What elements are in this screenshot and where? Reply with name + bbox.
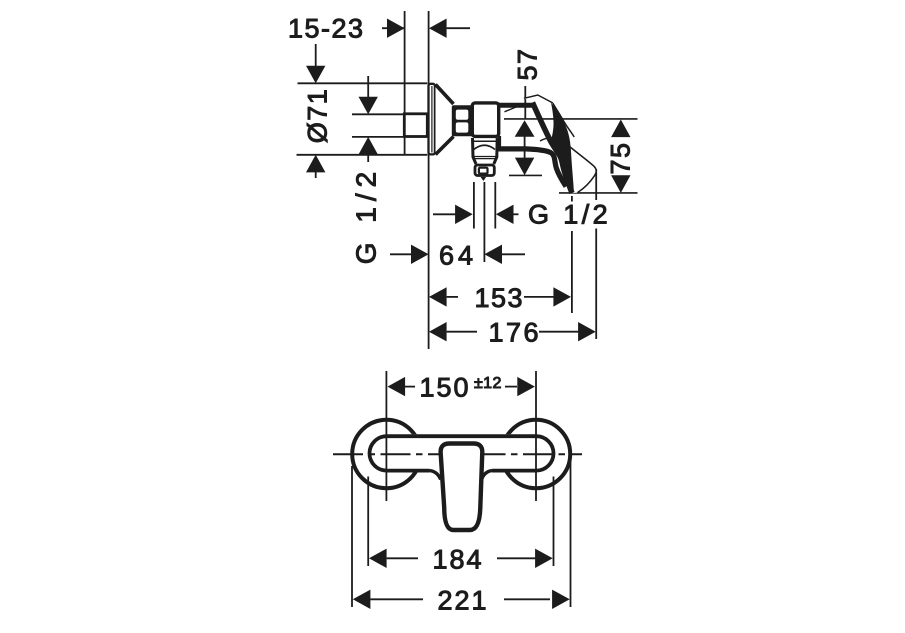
handle rear tip outline [524, 95, 553, 103]
dimension 221 arrow left-pointing [353, 590, 371, 609]
dimension G1/2 supply upper arrow down-pointing [359, 97, 378, 115]
dimension 57 line [524, 136, 526, 159]
outlet ring line [474, 140, 497, 142]
horizontal centerline dashed [333, 453, 582, 455]
supply pipe stub [404, 114, 427, 137]
dimension 221 arrow right-pointing [552, 590, 570, 609]
extension line circle left x=352 [351, 466, 353, 607]
extension line wall-front x=404.6 [404, 11, 406, 155]
handle blade back solid mass [551, 103, 574, 194]
svg-text:G 1/2: G 1/2 [351, 166, 382, 264]
handle base bottom bar with curve [498, 149, 566, 187]
outlet neck right side [494, 138, 497, 164]
dimension O71 upper arrow tail [315, 44, 317, 70]
dimension 75 lower arrow down-pointing [611, 175, 630, 193]
dimension 64 arrow right-pointing [411, 245, 429, 264]
dimension G1/2 supply lower arrow tail [367, 152, 369, 162]
handle base top bar [498, 103, 535, 108]
escutcheon plate [429, 84, 435, 155]
dimension O71 bottom reference line [297, 154, 428, 156]
handle blade far edge lower with end hook [567, 145, 596, 193]
dimension 57 line upper tail [524, 86, 526, 120]
dimension 64 left tail [390, 253, 412, 255]
dimension 184 arrow right-pointing [535, 549, 553, 568]
svg-text:±12: ±12 [474, 375, 502, 392]
dimension 153 arrow left-pointing [429, 287, 447, 306]
svg-text:Ø71: Ø71 [303, 88, 333, 144]
union nut upper window [456, 110, 469, 120]
label G1/2 outlet arrow left-pointing [496, 205, 514, 224]
dimension 57 upper arrow up-pointing [515, 120, 535, 137]
dimension 75 upper arrow up-pointing [611, 120, 630, 138]
extension line bar right x=553.5 [553, 477, 555, 567]
escutcheon plate inner line [431, 86, 433, 153]
outlet dome arc [474, 145, 495, 149]
svg-text:64: 64 [439, 241, 477, 271]
dimension 15-23 line left tail [382, 27, 405, 29]
dimension 15-23 line right tail [447, 27, 470, 29]
right junction fillet [482, 471, 492, 480]
dimension 176 left tail [447, 331, 477, 333]
handle blade front edge thick [533, 103, 573, 194]
dimension O71 lower arrow up-pointing [306, 155, 325, 173]
union nut lower window [456, 122, 469, 132]
body bar fill [387, 434, 537, 472]
outlet thread opening [479, 168, 488, 174]
svg-text:G 1/2: G 1/2 [528, 200, 611, 230]
dimension 57 lower arrow down-pointing [515, 158, 534, 176]
handle silhouette [524, 95, 596, 193]
svg-text:15-23: 15-23 [288, 14, 365, 44]
extension line bar left x=368.2 [367, 477, 369, 567]
outlet lower ring line 2 [474, 158, 496, 160]
extension line outlet right x=495.3 [494, 182, 496, 229]
cartridge cap lower edge detail [505, 105, 523, 112]
svg-text:176: 176 [489, 318, 542, 348]
dimension 153 left tail [447, 296, 458, 298]
dimension 176 arrow right-pointing [578, 322, 596, 341]
outlet hose nut [475, 165, 494, 176]
handle blade far edge upper [553, 103, 574, 137]
label G1/2 outlet leader left tail [433, 213, 456, 215]
extension line circle right x=570.5 [570, 462, 572, 607]
dimension 184 right tail [497, 557, 536, 559]
dimension G1/2 supply bottom reference line [352, 136, 403, 138]
dimension 150 arrow left-pointing [388, 377, 406, 396]
extension line wall-back x=428.6 [428, 11, 430, 349]
extension line outlet left x=473.9 [473, 182, 475, 229]
svg-text:221: 221 [438, 585, 489, 615]
dimension 176 right tail [539, 331, 579, 333]
svg-text:153: 153 [475, 283, 525, 313]
escutcheon cone [436, 85, 454, 155]
left circle center tick [385, 371, 387, 501]
handle front [441, 444, 483, 531]
extension line outlet axis x=484.4 [483, 182, 485, 262]
left junction fillet [430, 471, 441, 480]
handle root inner arc [540, 138, 555, 141]
dimension 150 right tail [505, 386, 517, 388]
outlet lower ring line [474, 156, 496, 158]
dimension G1/2 supply lower arrow up-pointing [359, 137, 378, 155]
dimension O71 upper arrow down-pointing [306, 66, 325, 84]
right circle center tick [535, 371, 537, 501]
handle base rear connector [498, 136, 501, 151]
dimension 184 left tail [387, 557, 418, 559]
body bar outline [370, 436, 554, 470]
svg-text:75: 75 [606, 141, 636, 174]
union nut block [452, 105, 475, 136]
dimension 75 bottom reference line [559, 192, 638, 194]
extension line handle far edge x=596.2 lower [595, 229, 597, 340]
extension line handle tip x=571.9 lower [571, 231, 573, 313]
extension line handle far edge x=596.2 upper [595, 169, 597, 200]
dimension 153 right tail [524, 296, 554, 298]
dimension 150 arrow right-pointing [517, 377, 535, 396]
right escutcheon circle [502, 420, 570, 488]
dimension 221 right tail [504, 598, 550, 600]
dimension 15-23 arrow left-pointing [429, 19, 447, 38]
svg-text:57: 57 [513, 47, 543, 80]
dimension 64 right tail [502, 253, 525, 255]
dimension 15-23 arrow right-pointing [387, 19, 405, 38]
dimension 153 arrow right-pointing [553, 287, 571, 306]
dimension 64 arrow left-pointing [484, 245, 502, 264]
label G1/2 outlet arrow right-pointing [455, 205, 473, 224]
dimension 221 left tail [370, 598, 423, 600]
dimension O71 lower arrow tail [315, 170, 317, 178]
dimension 176 arrow left-pointing [429, 322, 447, 341]
dimension G1/2 supply upper arrow tail [367, 76, 369, 101]
svg-text:184: 184 [433, 544, 484, 574]
extension line handle tip x=571.9 upper [571, 196, 573, 202]
dimension O71 top reference line [298, 82, 428, 84]
dimension 57 bottom reference line [509, 174, 542, 176]
valve body [472, 103, 498, 136]
outlet neck left side [473, 138, 477, 164]
left escutcheon circle [352, 420, 420, 488]
dimension 57 and 75 common axis reference line [504, 118, 638, 120]
dimension G1/2 supply top reference line [352, 113, 404, 115]
dimension 184 arrow left-pointing [369, 549, 387, 568]
dimension 150 left tail [405, 386, 415, 388]
label G1/2 outlet leader right tail [514, 213, 519, 215]
outlet bottom tip [481, 177, 487, 181]
svg-text:150: 150 [420, 373, 471, 403]
